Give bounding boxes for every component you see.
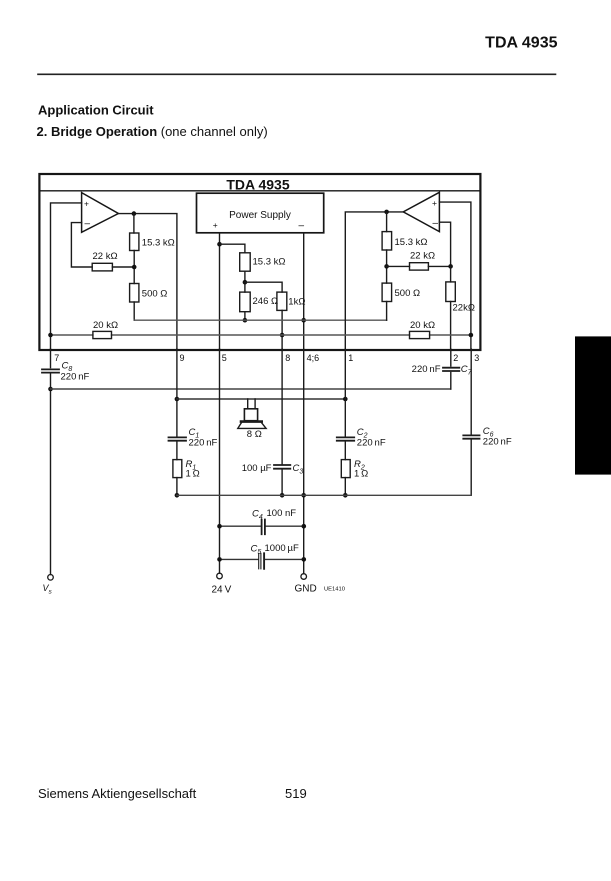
wire U2 output to pin1 line — [345, 212, 403, 350]
resistor 15.3k (right) — [382, 232, 392, 250]
svg-text:1 Ω: 1 Ω — [354, 469, 368, 480]
node pin1 railB — [343, 397, 348, 402]
resistor 15.3k (center) — [240, 253, 251, 271]
wire 22k to node — [112, 266, 133, 268]
svg-text:2. Bridge Operation (one chann: 2. Bridge Operation (one channel only) — [37, 124, 268, 139]
svg-text:TDA 4935: TDA 4935 — [226, 176, 290, 192]
svg-text:22 kΩ: 22 kΩ — [410, 250, 435, 261]
svg-text:8 Ω: 8 Ω — [247, 429, 262, 440]
svg-text:3: 3 — [474, 353, 479, 363]
pin labels — [54, 353, 479, 363]
svg-text:GND: GND — [295, 584, 317, 595]
power supply box U-PS — [197, 193, 324, 233]
svg-text:–: – — [433, 218, 439, 229]
svg-text:15.3 kΩ: 15.3 kΩ — [395, 237, 428, 248]
svg-text:–: – — [85, 219, 91, 230]
wire U2 -input — [439, 222, 450, 266]
wire C1 to R1 — [176, 441, 178, 460]
capacitor C2 — [337, 437, 354, 440]
node right pin3 rail — [469, 333, 474, 338]
svg-text:+: + — [213, 220, 218, 230]
speaker LS 8ohm — [248, 399, 255, 409]
svg-text:Siemens Aktiengesellschaft: Siemens Aktiengesellschaft — [38, 786, 197, 801]
svg-text:1000 µF: 1000 µF — [265, 543, 300, 554]
node center divider — [243, 280, 248, 285]
node pin8 railC — [280, 493, 285, 498]
wire pin1 down — [344, 349, 346, 437]
capacitor C3 — [274, 465, 290, 469]
wire node to 22k right — [387, 265, 410, 267]
svg-text:+: + — [432, 198, 437, 208]
20k rail — [51, 334, 471, 336]
capacitor C1 — [169, 437, 187, 440]
svg-text:C3: C3 — [293, 463, 304, 476]
node pin46 railC — [301, 493, 306, 498]
svg-text:500 Ω: 500 Ω — [395, 288, 421, 299]
rail A (C8 to C7) — [51, 388, 451, 390]
svg-text:–: – — [299, 221, 305, 232]
wire C6 to rail C corner — [470, 439, 472, 495]
capacitor C5 electrolytic — [259, 553, 261, 569]
wire U1 +input to pin7 line — [51, 203, 82, 350]
svg-text:Vs: Vs — [43, 583, 53, 596]
node left +input rail — [48, 333, 53, 338]
IC title underline — [39, 190, 480, 192]
header rule — [38, 73, 556, 75]
svg-text:8: 8 — [285, 353, 290, 363]
gnd rail y320 — [134, 319, 386, 321]
capacitor C6 — [463, 435, 479, 438]
terminal Vs — [48, 575, 54, 581]
terminal 24V — [217, 573, 223, 579]
resistor 22k (right feedback) — [410, 263, 429, 270]
rail E with C5 — [220, 558, 304, 560]
svg-text:24 V: 24 V — [212, 584, 232, 595]
resistor R2 — [341, 460, 350, 478]
svg-text:5: 5 — [222, 353, 227, 363]
svg-text:7: 7 — [54, 353, 59, 363]
svg-text:UE1410: UE1410 — [324, 587, 345, 593]
node 1k on 20k rail — [280, 333, 285, 338]
capacitor C8 — [42, 369, 59, 372]
svg-text:Power Supply: Power Supply — [229, 210, 291, 221]
wire center node — [244, 271, 246, 292]
resistor R1 — [173, 460, 182, 478]
capacitor C4 — [262, 520, 265, 535]
svg-text:20 kΩ: 20 kΩ — [410, 320, 435, 331]
svg-text:100 nF: 100 nF — [267, 508, 297, 519]
wire output to 15.3k right — [386, 212, 388, 232]
resistor 15.3k (left) — [130, 233, 139, 251]
wire C2 to R2 — [344, 441, 346, 460]
svg-text:1: 1 — [348, 353, 353, 363]
wire C3 to rail C — [281, 469, 283, 495]
wire R2 to rail C — [344, 478, 346, 496]
wire 246 to gnd rail — [244, 312, 246, 321]
wire output to 15.3k — [133, 214, 135, 233]
wire 1k bottom pin8 line — [281, 310, 283, 350]
resistor 20k (left) — [93, 331, 112, 338]
node R2 railC — [343, 493, 348, 498]
svg-text:246 Ω: 246 Ω — [253, 296, 279, 307]
wire PS minus to pin4;6 — [303, 233, 305, 350]
wire 500 right to gnd rail — [386, 302, 388, 321]
wire 15.3k to 500 right — [386, 250, 388, 283]
svg-text:22kΩ: 22kΩ — [453, 302, 475, 313]
svg-text:100 µF: 100 µF — [242, 463, 272, 474]
rail B (speaker rail) — [177, 398, 345, 400]
resistor 500 (left) — [130, 284, 139, 303]
wire node to 22k vertical — [450, 266, 452, 282]
svg-text:2: 2 — [453, 353, 458, 363]
wire U2 +input to pin3 line — [439, 202, 471, 350]
wire pin4;6 to GND — [303, 349, 305, 574]
resistor 246 — [240, 292, 251, 312]
node pin9 railB — [175, 397, 180, 402]
svg-text:+: + — [84, 198, 89, 208]
terminal GND — [301, 574, 307, 580]
svg-text:15.3 kΩ: 15.3 kΩ — [253, 257, 286, 268]
svg-text:20 kΩ: 20 kΩ — [93, 320, 118, 331]
wire R1 to rail C — [176, 478, 178, 496]
rail C — [177, 494, 471, 496]
node left feedback — [132, 265, 137, 270]
svg-text:220 nF: 220 nF — [189, 438, 218, 449]
svg-text:C5: C5 — [251, 544, 262, 557]
node 246 gnd — [243, 318, 248, 323]
wire U1 -input feedback — [71, 223, 92, 267]
capacitor C7 — [443, 368, 459, 371]
wire pin3 down — [470, 349, 472, 435]
op-amp U2 (right) — [403, 192, 439, 231]
wire pin8 down — [281, 349, 283, 465]
wire pin9 down — [176, 349, 178, 437]
wire pin7 to C8 — [50, 349, 52, 368]
wire 15.3k to 500 — [133, 251, 135, 284]
wire node to 1k — [245, 282, 282, 292]
node supply plus — [217, 242, 222, 247]
rail D with C4 — [220, 525, 304, 527]
wire PS + to node — [219, 233, 221, 350]
svg-text:Application Circuit: Application Circuit — [38, 102, 154, 117]
wire pin2 to C7 — [450, 349, 452, 389]
wire C8 to Vs terminal — [50, 374, 52, 575]
svg-text:9: 9 — [180, 353, 185, 363]
node right minus — [448, 264, 453, 269]
svg-text:500 Ω: 500 Ω — [142, 289, 168, 300]
svg-text:TDA 4935: TDA 4935 — [485, 35, 557, 52]
svg-text:519: 519 — [285, 786, 307, 801]
op-amp U1 (left) — [82, 193, 119, 233]
resistor 22k (vertical) — [446, 282, 456, 302]
svg-text:1 Ω: 1 Ω — [186, 469, 200, 480]
wire U1 output to pin9 line — [118, 214, 176, 350]
wire pin5 to 24V — [219, 349, 221, 573]
resistor 22k (left feedback) — [92, 263, 112, 271]
side tab black marker — [575, 336, 611, 474]
node U2 output — [384, 210, 389, 215]
svg-text:22 kΩ: 22 kΩ — [93, 251, 118, 262]
wire 22k vert to pin2 — [450, 302, 452, 351]
resistor 1k — [277, 292, 287, 310]
svg-text:C4: C4 — [252, 509, 263, 522]
svg-text:15.3 kΩ: 15.3 kΩ — [142, 238, 175, 249]
node U1 output — [132, 211, 137, 216]
node minus on gnd rail — [301, 318, 306, 323]
node R1 railC — [175, 493, 180, 498]
svg-text:220 nF: 220 nF — [357, 438, 386, 449]
wire 500 bottom to gnd rail — [133, 302, 135, 320]
svg-text:220 nF: 220 nF — [61, 372, 90, 383]
IC box outline TDA 4935 — [39, 174, 480, 350]
svg-text:1kΩ: 1kΩ — [288, 296, 305, 307]
resistor 20k (right) — [410, 331, 430, 338]
node right feedback — [384, 264, 389, 269]
svg-text:220 nF: 220 nF — [483, 436, 512, 447]
wire 22k to -input node — [428, 265, 450, 267]
resistor 500 (right) — [382, 283, 392, 301]
svg-text:220 nF: 220 nF — [412, 364, 441, 375]
wire node to center 15.3k — [220, 244, 245, 253]
node C8 railA — [48, 387, 53, 392]
svg-text:4;6: 4;6 — [307, 353, 320, 363]
